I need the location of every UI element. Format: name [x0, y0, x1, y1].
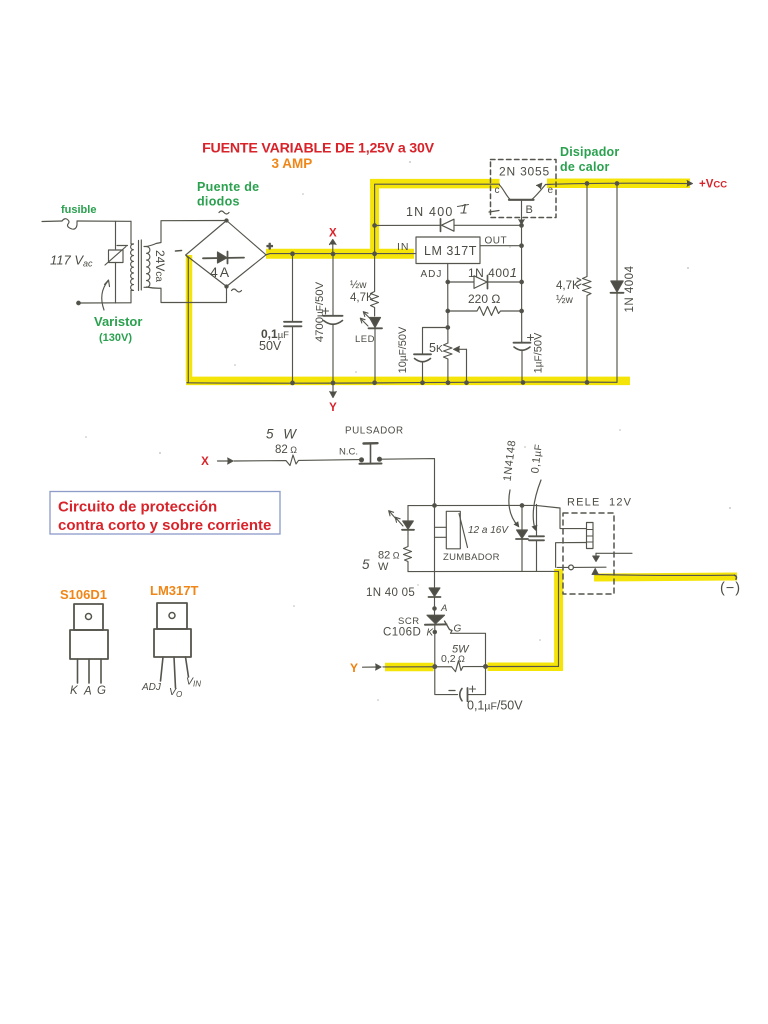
node X arrow top	[330, 240, 337, 253]
transformer T1 core	[139, 240, 142, 291]
arrow from Y	[363, 664, 382, 670]
transformer T1 secondary	[144, 247, 150, 288]
label D2 1N 400 1	[406, 201, 499, 220]
node Y arrow bottom	[330, 383, 336, 398]
resistor R3 4,7K 1/2W	[583, 184, 592, 383]
capacitor C5 0,1uF	[529, 505, 544, 572]
bridge inner diode	[203, 252, 244, 264]
svg-text:Disipador: Disipador	[560, 145, 619, 159]
svg-text:Circuito de protección: Circuito de protección	[58, 499, 217, 516]
label C6 value	[467, 699, 523, 713]
led D4	[360, 312, 382, 383]
svg-text:G: G	[97, 685, 106, 697]
wire bridge minus down and bottom rail	[186, 255, 617, 385]
diode D2 1N4001 top row	[375, 219, 522, 232]
wire relay to Y column black core	[558, 571, 560, 666]
relay K1 dashed box	[563, 513, 614, 594]
label X top	[329, 228, 337, 240]
protection box	[50, 492, 280, 535]
svg-text:LED: LED	[355, 334, 375, 345]
svg-text:Varistor: Varistor	[94, 314, 142, 329]
highlight bottom rail	[186, 377, 630, 386]
label C4 rotated	[533, 332, 545, 373]
highlight positive rail mid	[266, 249, 414, 259]
svg-text:2N 3055: 2N 3055	[499, 165, 550, 179]
bridge rectifier D1 diamond	[186, 219, 266, 288]
svg-text:B: B	[526, 204, 533, 216]
svg-text:diodos: diodos	[197, 195, 240, 209]
label 12 a 16V	[468, 525, 509, 536]
package LM317T outline	[154, 603, 191, 688]
label LM 317T	[424, 244, 477, 258]
svg-text:C106D: C106D	[383, 627, 421, 639]
wire ADJ column	[446, 264, 450, 344]
highlight Y wire left	[385, 663, 434, 672]
svg-text:contra corto y sobre corriente: contra corto y sobre corriente	[58, 517, 271, 534]
label Y bottom	[329, 402, 337, 414]
highlight negative left vertical	[186, 255, 193, 381]
wire +Vcc rail black core	[546, 181, 693, 187]
package S106D1 outline	[70, 604, 108, 683]
labels c e B	[495, 185, 554, 216]
label 0,1uF rotated with arrow	[529, 443, 545, 531]
svg-text:50V: 50V	[259, 339, 282, 353]
svg-text:IN: IN	[397, 241, 410, 253]
label 1N4148 rotated with arrow	[502, 439, 520, 527]
svg-text:1N 4001: 1N 4001	[468, 265, 517, 280]
svg-text:Y: Y	[329, 402, 337, 414]
relay K1 coil	[587, 523, 594, 549]
svg-text:0,1µF: 0,1µF	[529, 443, 545, 474]
svg-text:0,1µF/50V: 0,1µF/50V	[467, 699, 523, 713]
wire OUT to base column	[480, 245, 522, 247]
svg-text:FUENTE VARIABLE DE 1,25V a 30V: FUENTE VARIABLE DE 1,25V a 30V	[202, 141, 435, 157]
svg-text:82 Ω: 82 Ω	[275, 444, 297, 456]
svg-text:1: 1	[460, 201, 468, 217]
label 4A	[210, 264, 231, 280]
wire secondary bottom	[147, 287, 227, 303]
curved arrow to varistor	[102, 280, 110, 310]
bridge polarity marks	[176, 211, 273, 292]
highlight Y wire right and up to relay	[488, 569, 564, 670]
label ADJ	[421, 269, 443, 280]
label Puente de diodos	[197, 180, 259, 209]
svg-text:12 a 16V: 12 a 16V	[468, 525, 509, 536]
wire loop to coil top	[560, 508, 587, 529]
potentiometer P1 5K	[444, 343, 467, 383]
regulator U1 LM317T	[416, 237, 480, 264]
capacitor C6 0,1uF/50V	[435, 667, 486, 702]
varistor RV1	[105, 221, 128, 303]
transformer T1 primary	[131, 221, 134, 302]
transistor Q1 2N3055 dashed box	[491, 160, 557, 218]
svg-text:RELE 12V: RELE 12V	[567, 497, 632, 509]
resistor R1 4,7K	[371, 254, 379, 316]
svg-text:4,7K: 4,7K	[350, 292, 374, 304]
svg-text:VIN: VIN	[186, 676, 201, 689]
svg-text:S106D1: S106D1	[60, 587, 107, 602]
svg-text:1N 40 05: 1N 40 05	[366, 587, 415, 599]
svg-text:LM 317T: LM 317T	[424, 244, 477, 258]
label R3	[556, 278, 581, 306]
wire loop top	[408, 504, 560, 508]
svg-text:4700µF/50V: 4700µF/50V	[314, 281, 326, 342]
label D3 1N 4001	[468, 265, 517, 280]
svg-text:(−): (−)	[720, 581, 741, 597]
svg-text:fusible: fusible	[61, 204, 96, 216]
label LED	[355, 334, 375, 345]
buzzer BZ1	[446, 511, 467, 549]
svg-text:3 AMP: 3 AMP	[272, 156, 313, 171]
label C106D	[383, 627, 421, 639]
label IN	[397, 241, 410, 253]
subtitle 3 AMP	[272, 156, 313, 171]
svg-text:5 W: 5 W	[266, 427, 299, 442]
capacitor C4 1uF	[514, 335, 534, 383]
wire coil bottom return	[556, 543, 587, 568]
title	[202, 141, 435, 157]
svg-text:SCR: SCR	[398, 616, 420, 627]
svg-text:N.C.: N.C.	[339, 447, 358, 458]
svg-text:4,7K: 4,7K	[556, 280, 580, 292]
diode D8 1N4005	[429, 585, 441, 615]
label 1N 4005	[366, 587, 415, 599]
label 82 ohm R5	[378, 550, 400, 562]
label Varistor	[94, 314, 142, 329]
resistor R4 82 5W	[234, 455, 360, 466]
svg-text:1N 400: 1N 400	[406, 205, 454, 219]
svg-text:117 Vac: 117 Vac	[50, 253, 93, 269]
label ZUMBADOR	[443, 552, 500, 563]
label K	[427, 628, 435, 639]
svg-text:82 Ω: 82 Ω	[378, 550, 400, 562]
svg-text:½w: ½w	[556, 294, 574, 306]
label (130V)	[99, 332, 132, 344]
svg-text:5K: 5K	[429, 341, 443, 355]
label LM317T	[150, 583, 198, 598]
svg-text:e: e	[548, 185, 554, 196]
scan speckles	[85, 161, 731, 701]
label D5 rotated	[624, 265, 636, 312]
resistor R2 220	[448, 307, 522, 316]
label 5 W R5	[362, 557, 389, 573]
resistor R6 0,2 ohm with Y wire	[383, 661, 559, 672]
svg-text:ADJ: ADJ	[421, 269, 443, 280]
label G	[454, 624, 462, 635]
label 117 Vac	[50, 253, 93, 269]
label fusible	[61, 204, 96, 216]
label C3 rotated	[397, 326, 409, 373]
node X circuit2	[201, 456, 209, 468]
wire AC top with fuse F1	[42, 219, 131, 229]
svg-text:10µF/50V: 10µF/50V	[397, 326, 409, 373]
label (-)	[720, 581, 741, 597]
svg-text:1N4148: 1N4148	[502, 439, 519, 482]
svg-text:OUT: OUT	[485, 236, 508, 247]
label RELE 12V	[567, 497, 632, 509]
node Y circuit2	[350, 661, 358, 675]
label N.C.	[339, 447, 358, 458]
wire minus output black core	[595, 575, 737, 580]
pushbutton SW1	[360, 443, 382, 464]
svg-text:½w: ½w	[350, 279, 367, 291]
label 5W R6	[452, 644, 470, 656]
highlight +Vcc rail	[547, 178, 690, 188]
wire center column	[435, 506, 447, 585]
label R1 1/2w 4,7K	[350, 279, 374, 304]
label 5K	[429, 341, 443, 355]
svg-text:+VCC: +VCC	[699, 179, 727, 191]
relay NC contact arm	[592, 553, 632, 574]
svg-text:24Vca: 24Vca	[153, 250, 167, 282]
svg-text:c: c	[495, 185, 500, 196]
svg-text:VO: VO	[169, 686, 182, 699]
label 82 ohm	[275, 444, 297, 456]
svg-text:5: 5	[362, 557, 370, 572]
wire base column down	[520, 225, 524, 342]
svg-text:1N 4004: 1N 4004	[624, 265, 636, 312]
relay common contact	[557, 565, 606, 570]
label C1 value	[259, 327, 289, 353]
diode D7 1N4148	[516, 506, 528, 572]
wire loop bottom	[408, 570, 559, 572]
capacitor C3 10uF	[414, 328, 448, 383]
svg-text:X: X	[201, 456, 209, 468]
label S106D1	[60, 587, 107, 602]
SCR Q2 C106D	[425, 615, 452, 668]
protection box title line1	[58, 499, 217, 516]
svg-text:de calor: de calor	[560, 160, 610, 174]
label 5 W	[266, 427, 299, 442]
svg-text:PULSADOR: PULSADOR	[345, 426, 404, 437]
svg-text:220 Ω: 220 Ω	[468, 292, 500, 306]
label SCR	[398, 616, 420, 627]
svg-text:W: W	[378, 561, 389, 573]
transistor Q1 symbol	[500, 183, 546, 247]
label PULSADOR	[345, 426, 404, 437]
label C2 value rotated	[314, 281, 326, 342]
wire gate to sense node	[451, 631, 488, 669]
diode D5 1N4004	[611, 184, 624, 383]
svg-text:(130V): (130V)	[99, 332, 132, 344]
labels K A G	[70, 685, 106, 698]
svg-text:4A: 4A	[210, 264, 231, 280]
svg-text:Y: Y	[350, 661, 358, 675]
capacitor C2 4700uF	[323, 254, 343, 383]
labels ADJ Vo Vin	[141, 676, 201, 700]
label +Vcc	[699, 179, 727, 191]
svg-text:1µF/50V: 1µF/50V	[533, 332, 545, 373]
label Disipador de calor	[560, 145, 619, 174]
wire button to loop	[382, 459, 435, 506]
svg-text:0,2 Ω: 0,2 Ω	[441, 653, 465, 665]
svg-text:LM317T: LM317T	[150, 583, 198, 598]
svg-text:+: +	[267, 241, 273, 253]
label A anode	[440, 603, 447, 614]
wire yellow L black core	[373, 184, 500, 254]
label 2N 3055	[499, 165, 550, 179]
capacitor C1 0,1uF	[284, 254, 302, 383]
arrow from X	[218, 458, 234, 464]
svg-text:Puente de: Puente de	[197, 180, 259, 194]
wire bridge plus to rail	[266, 252, 416, 256]
protection box title line2	[58, 517, 271, 534]
wire AC bottom	[77, 301, 131, 305]
highlight minus output wire	[594, 577, 737, 578]
svg-text:ZUMBADOR: ZUMBADOR	[443, 552, 500, 563]
svg-text:A: A	[440, 603, 447, 614]
svg-text:ADJ: ADJ	[141, 682, 162, 693]
led D6 with resistor R5	[389, 506, 414, 572]
label 24Vca rotated	[153, 250, 167, 282]
wire secondary top	[147, 221, 227, 247]
svg-text:A: A	[83, 686, 92, 698]
highlight yellow L to top	[370, 184, 500, 258]
svg-text:X: X	[329, 228, 337, 240]
svg-text:K: K	[70, 685, 79, 697]
diode D3 1N4001	[448, 276, 522, 289]
label 220 ohm	[468, 292, 500, 306]
label OUT	[485, 236, 508, 247]
label 0,2 ohm	[441, 653, 465, 665]
